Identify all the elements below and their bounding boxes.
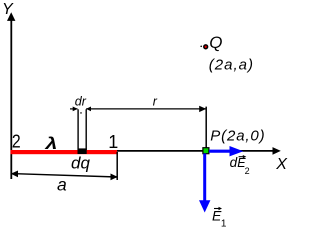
extension line above P [205,107,207,148]
X axis line [113,150,274,152]
a dimension line [11,174,117,177]
svg-text:dq: dq [71,154,90,173]
small black point left of Q [200,46,202,48]
Y axis line [10,18,12,179]
svg-text:Q: Q [209,33,222,52]
r left-pointing arrowhead [86,107,91,112]
svg-text:(2a,a): (2a,a) [209,56,254,73]
right extension line below rod end [116,152,118,180]
X axis arrowhead [273,147,281,155]
dE2 label: vector arrow over E [239,156,244,158]
svg-text:a: a [57,174,67,194]
svg-text:P(2a,0): P(2a,0) [210,128,265,145]
E1 field arrow (blue, pointing down) [203,154,206,202]
E1 label: vector arrow over E [214,208,220,210]
point P (green square) [203,148,209,154]
point charge Q dot (red with black ring) [204,45,208,49]
svg-text:2: 2 [12,132,21,152]
a right-pointing arrowhead [111,174,118,181]
a left-pointing arrowhead [11,171,18,178]
dr dimension tail line [70,108,78,110]
dq element strip right edge [85,109,87,150]
svg-text:λ: λ [44,135,57,154]
svg-text:2: 2 [245,166,250,176]
svg-text:1: 1 [221,219,227,229]
r right-pointing arrowhead [199,106,206,112]
dE2 field arrow (blue, pointing right) [209,150,231,153]
svg-text:1: 1 [108,132,118,152]
dq element strip left edge [77,109,79,150]
r dimension line [86,108,205,110]
dq element filled square on rod [78,148,87,154]
charged rod (red) [11,150,118,154]
svg-text:X: X [275,156,288,173]
svg-text:dr: dr [75,95,87,109]
dr right-pointing arrowhead [73,107,78,112]
small dot inside strip top [80,112,82,114]
Y axis arrowhead [7,12,15,21]
